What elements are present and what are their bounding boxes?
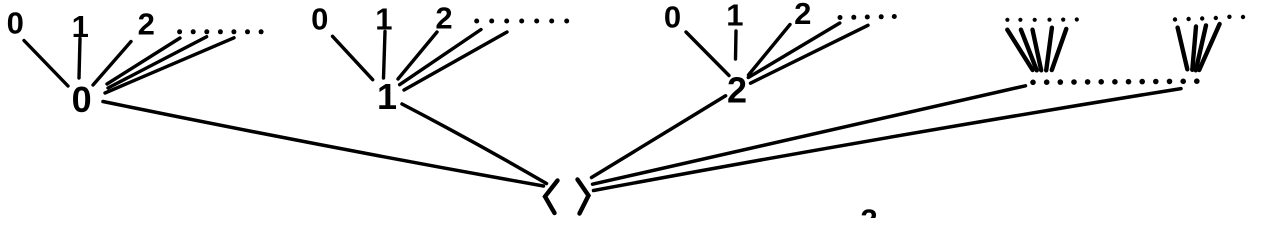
svg-text:0: 0 [7,6,24,41]
svg-text:0: 0 [72,79,92,120]
svg-text:2: 2 [435,1,452,36]
svg-text:2: 2 [138,6,155,41]
svg-text:0: 0 [664,0,681,35]
svg-text:1: 1 [377,76,397,117]
svg-text:1: 1 [726,0,743,33]
svg-text:2: 2 [794,0,811,31]
svg-text:2: 2 [860,203,877,218]
svg-text:0: 0 [311,2,328,37]
